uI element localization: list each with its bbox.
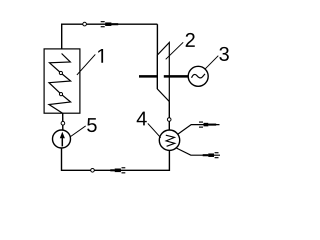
pump 5 circle [53,130,71,148]
condenser 4 circle [159,130,179,150]
cooling water inlet line (lower right) [176,148,220,155]
label 1 [98,49,103,63]
wire turbine exhaust down to condenser [168,102,170,131]
generator 3 circle [188,66,208,86]
node between boiler and pump [61,121,65,125]
label 3 [219,47,228,61]
small circle on zigzag (upper) [59,71,62,74]
turbine 2 body [157,43,169,102]
cooling water outlet line (upper right) [178,125,220,135]
leader line for label 2 [166,42,184,59]
boiler (steam generator) box 1 [44,49,80,113]
generator sine wave [192,74,205,78]
flow arrow right on cooling outlet [199,122,216,128]
pump arrow up [60,132,65,147]
wire boiler bottom to pump [62,113,64,130]
flow arrow right on top wire [101,21,119,27]
wire pump to bottom-left corner and bottom run to condenser [62,148,170,170]
node between turbine and condenser [167,118,171,122]
leader line for label 5 [70,126,86,137]
turbine shaft left stub [139,75,157,78]
label 2 [186,33,195,47]
small circle on zigzag (lower) [59,93,62,96]
label 4 [137,112,147,126]
node on bottom wire [91,169,95,173]
node on top wire [83,22,87,26]
flow arrow left on bottom wire [110,167,125,173]
wire top (boiler outlet to turbine inlet) [62,24,158,53]
label 5 [87,118,96,132]
turbine shaft to generator [164,75,189,78]
leader line for label 4 [148,123,161,137]
boiler heating zigzag [49,54,71,114]
turbine inlet wire / left edge column [156,24,158,89]
leader line for label 1 [77,54,95,75]
condenser zigzag [166,135,175,146]
flow arrow left on cooling inlet [203,152,219,158]
leader line for label 3 [205,56,218,69]
